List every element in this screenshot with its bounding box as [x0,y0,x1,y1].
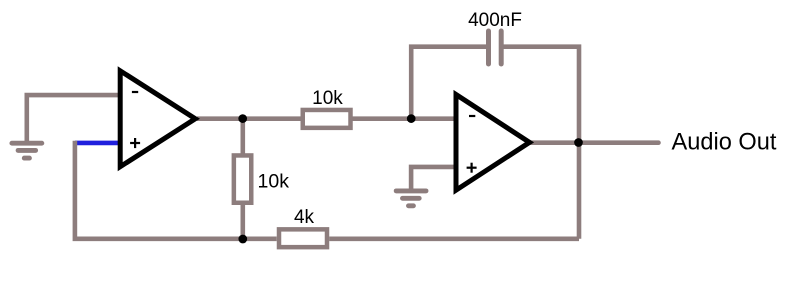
svg-text:400nF: 400nF [468,10,522,31]
svg-text:Audio Out: Audio Out [672,130,777,156]
svg-text:10k: 10k [312,88,343,109]
svg-text:10k: 10k [258,171,290,193]
svg-text:4k: 4k [294,207,315,228]
